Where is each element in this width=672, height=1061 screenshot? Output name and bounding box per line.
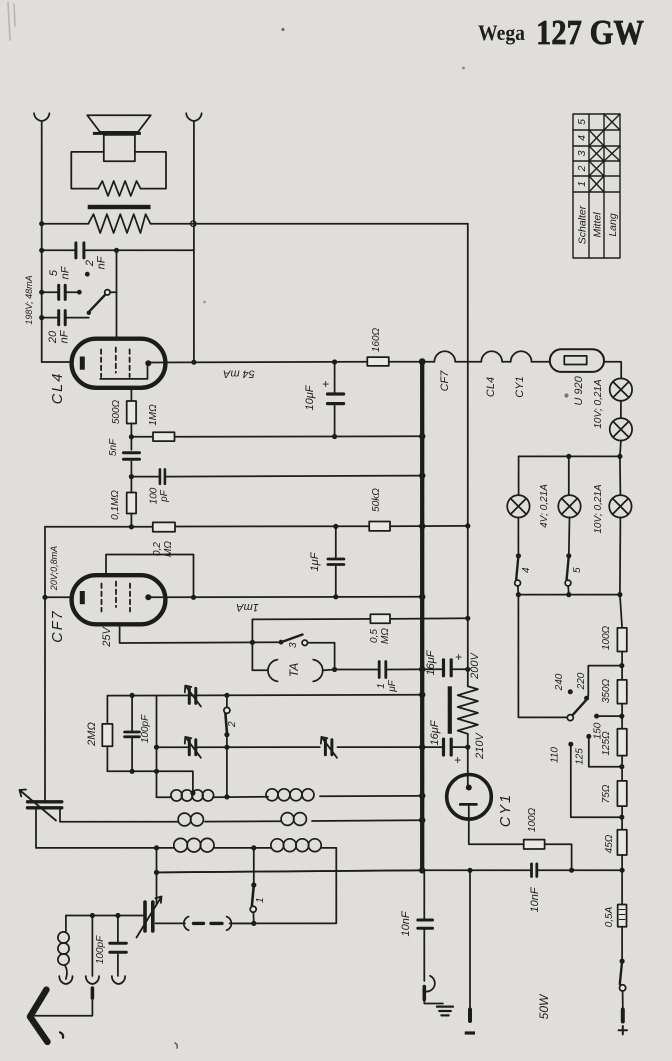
trimmer 1 plates [189, 688, 196, 703]
feed vertical 54mA [467, 224, 469, 788]
resistor 2M [102, 724, 112, 746]
CL4 grid dash 1 [100, 349, 102, 377]
antenna trimmer plates [28, 802, 62, 808]
capacitor 5nF [59, 285, 65, 299]
wire selector pole [518, 595, 567, 718]
wire tap 125 [589, 736, 622, 766]
transformer core bar [88, 205, 151, 209]
node coil tap [190, 790, 195, 795]
antenna coil [65, 916, 67, 932]
svg-text:100pF: 100pF [95, 935, 106, 964]
svg-text:2: 2 [227, 721, 238, 728]
wire 2nF row [42, 249, 194, 251]
speaker cone [87, 115, 151, 132]
svg-text:240: 240 [554, 673, 565, 691]
svg-text:5nF: 5nF [108, 438, 119, 456]
node bus 100pF [419, 472, 425, 478]
lamp 2 [610, 418, 632, 440]
resistor 0.5M [370, 614, 390, 623]
capacitor 10nF A [418, 920, 433, 928]
socket cup 2 [86, 976, 99, 984]
svg-text:210V: 210V [474, 731, 486, 759]
trimmer 1 arrow [185, 686, 201, 707]
wire band row to cap [156, 922, 254, 924]
svg-text:1: 1 [576, 181, 588, 187]
trimmer 2 plates [189, 740, 196, 755]
speaker coil box [104, 135, 135, 161]
wire mid row y747 [157, 746, 468, 748]
capacitor 20nF [59, 311, 65, 325]
node bus bottom [419, 867, 425, 873]
node 1uF top [333, 524, 338, 529]
wire chain top [620, 595, 622, 628]
node switch1 bottom [251, 921, 256, 926]
wire lamp5 drop [619, 456, 622, 495]
wire lamp2 down [620, 441, 621, 457]
socket cup 1 [59, 976, 72, 984]
node tap110 [619, 815, 624, 820]
heater hump CL4 [481, 351, 502, 361]
speaker terminal left [34, 113, 49, 131]
capacitor 5nF coupling [124, 453, 140, 459]
wire left long vertical [44, 527, 46, 800]
switch 5 pivot [565, 580, 571, 586]
node tap220 [619, 663, 624, 668]
wire chain seg4 [621, 806, 623, 830]
node mains 100ohm [569, 868, 574, 873]
CF7 plate dot [145, 594, 151, 600]
antenna tick [60, 1032, 63, 1037]
CL4 internal bracket [100, 366, 147, 379]
plug stub mid [91, 988, 95, 998]
paper speck c [564, 393, 568, 397]
lamp 1 [610, 378, 632, 400]
wire TA bottom with jacks [252, 669, 334, 672]
svg-text:100Ω: 100Ω [527, 807, 538, 832]
chassis hook [423, 976, 435, 992]
tube CF7 envelope [72, 575, 166, 624]
node row4 left [154, 870, 159, 875]
node 0.1M bottom [129, 524, 134, 529]
svg-text:Lang: Lang [607, 213, 619, 237]
wire 0.1M to bottom row [130, 514, 132, 527]
node switch1 contact [251, 882, 256, 887]
svg-text:1μF: 1μF [309, 551, 321, 571]
wire CF7 cathode [45, 596, 73, 598]
svg-text:10nF: 10nF [400, 910, 412, 936]
wire lamp5 down long [619, 518, 622, 595]
node secondary left [39, 221, 44, 226]
capacitor 100pF grid [160, 469, 165, 483]
paper speck e [175, 1043, 177, 1048]
switch 1 lever [252, 885, 254, 906]
wire to antenna symbol [34, 998, 93, 1016]
coil L3b row3 [271, 839, 321, 852]
speaker terminal right [186, 113, 201, 131]
resistor 500 ohm [127, 401, 136, 424]
dropper slider bar [448, 686, 452, 734]
node lampbot left [516, 592, 521, 597]
band indicator arcs [184, 917, 232, 931]
capacitor 100pF cathode plates [125, 732, 140, 737]
wire switch to plug [622, 991, 624, 1010]
CL4 cathode bar [80, 357, 85, 370]
tube CL4 envelope [72, 339, 166, 388]
label minus [465, 1031, 475, 1034]
CY1 anode dot [466, 785, 472, 791]
switch 4 lever [516, 556, 518, 580]
resistor 1M [153, 432, 175, 441]
lamp 3 [507, 495, 529, 517]
node 500/1M [129, 434, 134, 439]
resistor 0.1M [127, 493, 136, 514]
trimmer 3 arrow [321, 737, 337, 758]
wire 500 ohm to node [130, 424, 132, 450]
svg-text:CY1: CY1 [514, 376, 526, 397]
svg-text:125Ω: 125Ω [601, 731, 612, 756]
wire heater row [389, 361, 550, 363]
rectifier CY1 envelope [447, 775, 492, 820]
node feed 16uFa [465, 667, 470, 672]
resistor 125 ohm [617, 729, 626, 756]
capacitor 16uF A plates [444, 660, 452, 676]
svg-text:198V; 48mA: 198V; 48mA [24, 275, 34, 324]
contact 110 [568, 742, 573, 747]
wire trimmer to row2 [59, 808, 61, 822]
wire 0.5M row [252, 618, 467, 619]
node switch2 contact [224, 732, 229, 737]
plug pin right [621, 1010, 625, 1022]
wire 2M bottom row [107, 771, 192, 793]
node ant row mid [90, 913, 95, 918]
tuning capacitor plates [145, 902, 153, 931]
node 2M bottom left v [154, 769, 159, 774]
node 1uF bottom [333, 594, 338, 599]
ballast U920 element [564, 356, 586, 365]
wire lamp4 to switch5 [568, 518, 571, 556]
node bus 16uF row [419, 744, 425, 750]
contact dot 5nF [77, 290, 82, 295]
contact dot 2nF [85, 272, 90, 277]
node switch4 top [516, 553, 521, 558]
speaker bar [93, 132, 141, 135]
svg-text:10μF: 10μF [304, 384, 316, 410]
svg-text:10V; 0,21A: 10V; 0,21A [593, 379, 604, 429]
node lever tip [87, 311, 91, 315]
wire TA feed corner [251, 619, 253, 670]
svg-text:CL4: CL4 [50, 372, 66, 405]
node row1 switch2 [224, 794, 229, 799]
wire tap 220 [587, 666, 622, 699]
band indicator dashes [194, 922, 223, 925]
heater hump CF7 [434, 351, 455, 361]
node screen-plate [191, 595, 196, 600]
wire left frame vertical [156, 696, 158, 798]
wire row3 [36, 847, 336, 849]
node bus grid row [419, 692, 425, 698]
wire lamp4 drop [568, 456, 570, 495]
resistor 45 ohm [617, 830, 626, 855]
CF7 cathode bar [80, 591, 85, 604]
svg-text:4: 4 [576, 135, 588, 141]
wire 5nF to node [130, 462, 132, 493]
svg-text:16μF: 16μF [429, 719, 441, 745]
node bus heater [419, 358, 426, 365]
switch 2 lever [225, 713, 227, 733]
node lamprow mid [566, 454, 571, 459]
node 20nF left [39, 315, 44, 320]
antenna trimmer arrow [20, 790, 57, 821]
wire row4 AVC [157, 870, 425, 872]
coil L2b row2 [281, 813, 306, 826]
wire trimmer1 row gaps [186, 695, 199, 697]
switch 5 lever [567, 556, 569, 580]
node plate-speaker [191, 360, 196, 365]
switch 4 pivot [515, 580, 521, 586]
node cathode RC top [130, 693, 135, 698]
resistor 0.2M [153, 522, 175, 531]
corner mark [8, 2, 15, 40]
CL4 grid dash 2 [115, 348, 117, 373]
node bus plate CF7 [419, 594, 425, 600]
resistor 160 ohm [367, 357, 389, 366]
capacitor 10uF plates [328, 394, 344, 404]
svg-text:220: 220 [576, 672, 587, 690]
svg-text:2MΩ: 2MΩ [86, 722, 98, 747]
svg-text:Schalter: Schalter [577, 205, 589, 244]
contact 150 [594, 714, 599, 719]
coil L1a row1 [171, 790, 214, 801]
svg-text:20V;0,8mA: 20V;0,8mA [49, 546, 59, 591]
lamp 5 [609, 495, 631, 517]
svg-text:5: 5 [576, 119, 588, 125]
switch table frame [573, 114, 620, 258]
wire switch4 bottom [517, 586, 520, 595]
wire chain seg3 [621, 756, 623, 781]
svg-text:3: 3 [288, 642, 299, 648]
capacitor 10nF B [532, 864, 537, 877]
node switch2 top [224, 693, 229, 698]
antenna coil tail [65, 965, 67, 979]
socket cup 3 [112, 976, 125, 984]
wire row3 right corner [234, 848, 337, 924]
svg-text:54 mA: 54 mA [223, 368, 255, 380]
wire grid top row y695 [107, 694, 422, 697]
resistor 75 ohm [617, 781, 626, 806]
paper speck b [462, 67, 465, 70]
svg-text:110: 110 [550, 747, 561, 763]
wire 1M row [131, 435, 422, 438]
node switch2 mid [224, 745, 229, 750]
X mark Mittel row4 [589, 130, 604, 146]
svg-text:TA: TA [287, 663, 301, 677]
svg-text:2: 2 [576, 165, 588, 172]
node bus row2 [419, 817, 425, 823]
wire CL4 screen pin [130, 388, 132, 401]
node bus 1uF row [419, 666, 425, 672]
X mark Mittel row3 [589, 146, 604, 161]
contact 125 [586, 734, 591, 739]
wire mid stub [91, 916, 93, 977]
switch M lever [89, 295, 106, 313]
X mark Lang row3 [604, 146, 620, 161]
wire switch3 out [308, 643, 335, 670]
svg-text:25V: 25V [101, 626, 113, 648]
X mark Mittel row1 [589, 176, 604, 192]
wire 5nF stub row [42, 291, 77, 293]
transformer primary zigzag [98, 181, 140, 196]
svg-text:20nF: 20nF [47, 329, 71, 344]
contact 220 [584, 696, 589, 701]
svg-text:+: + [322, 377, 329, 391]
node mid row left [154, 745, 159, 750]
wire bottom row y527 [45, 525, 468, 528]
wire left frame to tuning cap [156, 848, 158, 905]
switch 1 pivot [250, 906, 256, 912]
capacitor 16uF B plates [444, 739, 452, 755]
svg-text:CF7: CF7 [439, 370, 451, 392]
svg-text:50W: 50W [537, 993, 551, 1019]
node 2nF row mid [114, 248, 119, 253]
trimmer 2 arrow [185, 737, 201, 758]
svg-text:1: 1 [255, 897, 266, 903]
svg-text:100pF: 100pF [140, 714, 151, 743]
wire CF7 screen loop [106, 555, 194, 598]
svg-text:+: + [454, 753, 461, 767]
svg-text:4V; 0,21A: 4V; 0,21A [539, 484, 550, 528]
node ant row cap [115, 913, 120, 918]
svg-text:CY1: CY1 [498, 793, 514, 827]
crossing loop mark [191, 221, 197, 227]
capacitor 1uF plates [328, 559, 344, 565]
wire 100pF row [131, 476, 422, 477]
node 5nF/100pF [129, 474, 134, 479]
svg-text:0,5MΩ: 0,5MΩ [369, 628, 391, 644]
node feed 16uFb [465, 745, 470, 750]
X mark Mittel row2 [589, 161, 604, 176]
trimmer 3 plates [325, 740, 332, 755]
resistor 350 ohm [617, 680, 626, 704]
node 10uF top [332, 359, 337, 364]
plug pin left [468, 1010, 472, 1022]
node mains chain [620, 868, 625, 873]
node bus 50k [419, 523, 425, 529]
wire lamp1-lamp2 [620, 401, 622, 418]
mains switch lever [620, 961, 622, 984]
wire lamp top row [519, 455, 620, 457]
node cathode CF7 [42, 595, 47, 600]
wire U920 to lamp1 [604, 362, 621, 379]
switch M pivot wire [110, 291, 116, 293]
wire lamp3 drop [518, 456, 520, 495]
transformer secondary zigzag [88, 214, 150, 233]
svg-text:CF7: CF7 [50, 609, 66, 642]
svg-text:100Ω: 100Ω [601, 625, 612, 650]
wire CL4 cathode [42, 361, 73, 363]
svg-text:45Ω: 45Ω [604, 834, 615, 853]
svg-text:125: 125 [575, 748, 586, 765]
node row3 switch1 [251, 845, 256, 850]
heater hump CY1 [511, 351, 532, 361]
CF7 grid dash 3 [129, 584, 131, 612]
node switch5 top [566, 553, 571, 558]
wire tap 110 [571, 744, 622, 817]
wire chain seg1 [621, 652, 623, 680]
wire CL4 plate row [151, 361, 367, 364]
wire mains plug left [469, 870, 471, 1009]
CF7 grid dash 2 [115, 582, 117, 608]
wire 10nF A drop [423, 870, 425, 981]
node bus row1 [419, 793, 425, 799]
selector pivot [567, 715, 573, 721]
node lamprow right [617, 454, 622, 459]
svg-text:Wega: Wega [478, 20, 525, 45]
selector lever [572, 700, 586, 715]
svg-text:CL4: CL4 [485, 377, 497, 397]
switch 3 lever [281, 635, 303, 643]
svg-text:350Ω: 350Ω [601, 678, 612, 703]
wire left vertical A [41, 131, 43, 362]
node 2M bottom [130, 769, 135, 774]
wire chain seg2 [621, 704, 623, 729]
svg-text:16μF: 16μF [425, 649, 437, 675]
wire CY1 cathode out [469, 804, 572, 870]
wire secondary left [42, 223, 89, 225]
ground bars [437, 1007, 453, 1016]
resistor 100 ohm A [524, 840, 545, 849]
wire lamp3 to switch4 [517, 518, 519, 556]
svg-text:Mittel: Mittel [592, 212, 604, 238]
node TA bus on 25V row [250, 640, 255, 645]
svg-text:200V: 200V [469, 651, 481, 679]
node tap125 [619, 764, 624, 769]
label plus mains [619, 1026, 627, 1034]
ground lead [424, 1000, 443, 1004]
node mains plugwire [467, 868, 472, 873]
wire right vertical (speaker) [193, 131, 195, 362]
switch 1 vertical top [253, 848, 255, 885]
wire grid drop [116, 250, 118, 338]
CL4 plate dot [145, 360, 151, 366]
switch 2 pivot [224, 707, 230, 713]
wire chain seg5 [621, 855, 623, 905]
wire secondary to right feed [151, 223, 468, 225]
svg-text:10nF: 10nF [529, 886, 541, 912]
capacitor 2nF [76, 243, 84, 258]
TA jack left [268, 660, 278, 682]
paper speck a [281, 28, 284, 31]
antenna symbol [30, 990, 47, 1042]
wire 20nF row [42, 317, 89, 319]
wire switch2 vertical [226, 696, 228, 798]
node 2nF row left [39, 248, 44, 253]
svg-text:1mA: 1mA [236, 601, 259, 613]
antenna trimmer feed [44, 799, 46, 802]
resistor 50k [369, 522, 390, 531]
node feed 0.5M [465, 616, 470, 621]
wire CF7 plate row [151, 596, 422, 599]
wire row1 [157, 796, 425, 797]
capacitor 1uF coupling [379, 662, 386, 678]
svg-text:U 920: U 920 [573, 375, 585, 405]
resistor 2M top stub [106, 696, 108, 772]
capacitor 100pF antenna [110, 943, 127, 952]
node lampbot right [617, 592, 622, 597]
coil L3a row3 [174, 838, 214, 852]
svg-text:127 GW: 127 GW [536, 13, 644, 52]
capacitor 1uF anode wire [335, 527, 337, 597]
wire row2 [60, 820, 424, 822]
